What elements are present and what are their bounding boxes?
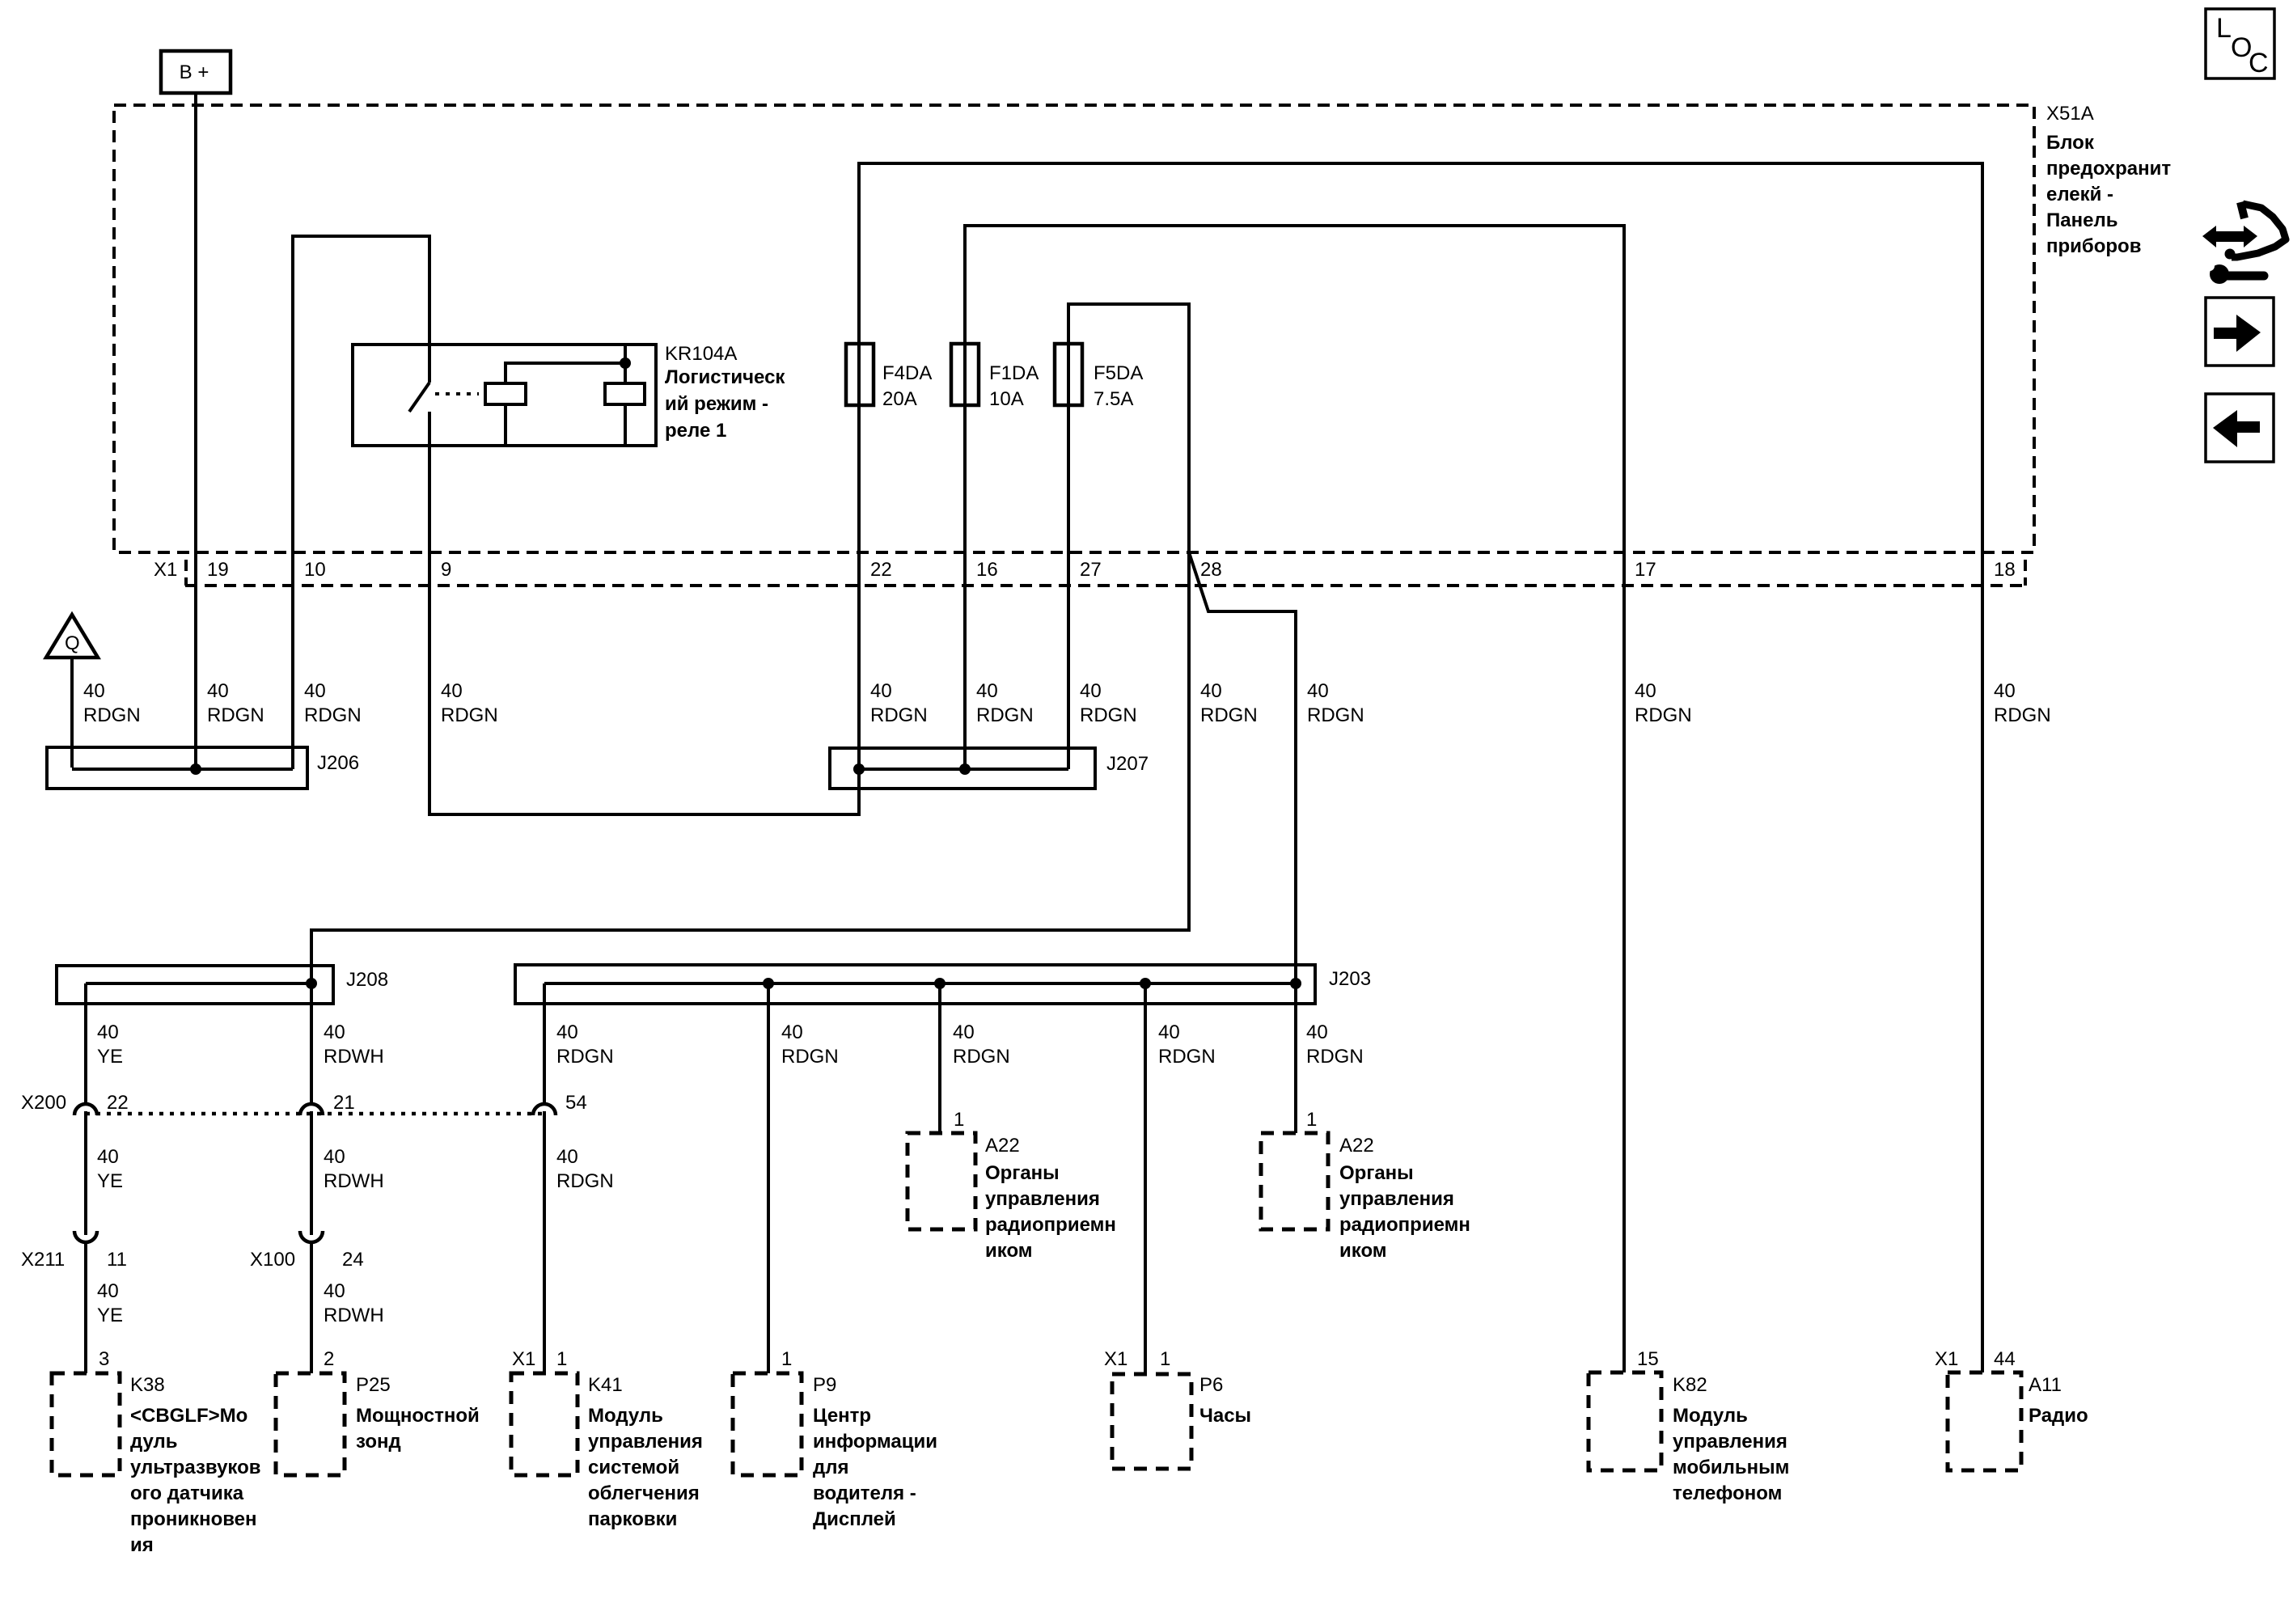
wire J203 to K41 <box>543 983 546 1373</box>
svg-text:RDWH: RDWH <box>324 1170 384 1192</box>
wire label 40 RDGN (A22 left wire) <box>953 1021 1010 1068</box>
svg-text:RDGN: RDGN <box>781 1046 839 1068</box>
svg-text:40: 40 <box>207 680 229 702</box>
svg-text:RDGN: RDGN <box>1994 704 2051 726</box>
svg-text:2: 2 <box>324 1348 334 1370</box>
svg-text:RDGN: RDGN <box>441 704 498 726</box>
svg-text:F1DA: F1DA <box>989 362 1039 384</box>
svg-text:дуль: дуль <box>130 1431 178 1453</box>
svg-text:иком: иком <box>985 1240 1033 1262</box>
svg-text:3: 3 <box>99 1348 109 1370</box>
splice J208 box <box>57 966 388 1004</box>
svg-text:40: 40 <box>953 1021 975 1043</box>
wire label 40 RDGN (K41 wire upper) <box>556 1021 614 1068</box>
svg-text:40: 40 <box>1994 680 2016 702</box>
fuse F4DA <box>846 344 932 410</box>
ground symbol Q triangle <box>46 615 98 658</box>
svg-text:RDGN: RDGN <box>870 704 928 726</box>
wire label 40 RDGN (pin 19 wire) <box>207 680 264 726</box>
svg-text:телефоном: телефоном <box>1673 1482 1782 1504</box>
wire label 40 RDGN (pin 18 wire) <box>1994 680 2051 726</box>
relay KR104A labels <box>665 343 785 442</box>
module K38 dashed box <box>52 1348 261 1556</box>
svg-text:J207: J207 <box>1106 753 1149 775</box>
wire pin 28 jog branch down to J203 and A22 <box>1189 552 1296 1133</box>
svg-text:X100: X100 <box>250 1249 295 1271</box>
wire B+ pin 19 to J206 <box>194 93 197 768</box>
wire label 40 RDWH (P25 wire lower) <box>324 1280 384 1326</box>
svg-text:ультразвуков: ультразвуков <box>130 1457 261 1478</box>
svg-text:J206: J206 <box>317 752 359 774</box>
module K82 dashed box <box>1589 1348 1789 1504</box>
svg-text:зонд: зонд <box>356 1431 401 1453</box>
svg-text:ия: ия <box>130 1534 154 1556</box>
svg-text:40: 40 <box>1307 680 1329 702</box>
connector X200 dotted line <box>86 1112 544 1116</box>
svg-text:X1: X1 <box>1104 1348 1127 1370</box>
svg-text:A22: A22 <box>985 1135 1020 1157</box>
svg-text:F4DA: F4DA <box>882 362 932 384</box>
svg-text:RDGN: RDGN <box>1635 704 1692 726</box>
wire label 40 RDWH (P25 wire middle) <box>324 1146 384 1192</box>
module P9 dashed box <box>733 1348 937 1530</box>
wire J207 through fuse F1DA pin 16, top run, pin 17 down to K82 <box>965 226 1624 1372</box>
svg-text:P9: P9 <box>813 1374 836 1396</box>
svg-text:ого датчика: ого датчика <box>130 1482 244 1504</box>
svg-text:40: 40 <box>976 680 998 702</box>
svg-text:Модуль: Модуль <box>1673 1405 1748 1427</box>
svg-text:P6: P6 <box>1199 1374 1223 1396</box>
svg-text:40: 40 <box>1080 680 1102 702</box>
svg-text:реле 1: реле 1 <box>665 420 726 442</box>
wire label 40 RDGN (A22 right wire) <box>1306 1021 1364 1068</box>
wire label 40 RDGN (P6 wire) <box>1158 1021 1216 1068</box>
svg-text:40: 40 <box>870 680 892 702</box>
wire label 40 RDGN (pin 16 wire) <box>976 680 1034 726</box>
svg-text:RDWH: RDWH <box>324 1305 384 1326</box>
wire label 40 YE (K38 wire middle) <box>97 1146 123 1192</box>
svg-text:54: 54 <box>565 1092 587 1114</box>
wire label 40 RDGN (pin 27 wire) <box>1080 680 1137 726</box>
svg-text:RDGN: RDGN <box>556 1046 614 1068</box>
connector X200 bump on K38 wire <box>74 1104 97 1115</box>
svg-text:X1: X1 <box>512 1348 535 1370</box>
svg-text:10: 10 <box>304 559 326 581</box>
svg-text:20A: 20A <box>882 388 917 410</box>
svg-text:предохранит: предохранит <box>2046 158 2171 180</box>
svg-text:K82: K82 <box>1673 1374 1707 1396</box>
svg-text:40: 40 <box>1306 1021 1328 1043</box>
module A11 dashed box <box>1935 1348 2088 1470</box>
wire label 40 RDGN (P9 wire) <box>781 1021 839 1068</box>
svg-text:40: 40 <box>324 1021 345 1043</box>
car connector-view icon <box>2202 202 2286 284</box>
svg-text:RDGN: RDGN <box>1158 1046 1216 1068</box>
svg-text:10A: 10A <box>989 388 1024 410</box>
svg-text:F5DA: F5DA <box>1094 362 1143 384</box>
svg-text:40: 40 <box>304 680 326 702</box>
wire label 40 RDGN (pin 28 wire) <box>1200 680 1258 726</box>
svg-text:для: для <box>813 1457 848 1478</box>
svg-text:40: 40 <box>781 1021 803 1043</box>
svg-text:11: 11 <box>107 1249 127 1271</box>
wire label 40 RDWH (P25 wire upper) <box>324 1021 384 1068</box>
wire J203 to P9 <box>767 983 770 1373</box>
svg-text:парковки: парковки <box>588 1508 677 1530</box>
svg-text:Блок: Блок <box>2046 132 2095 154</box>
svg-text:Органы: Органы <box>985 1162 1060 1184</box>
svg-text:RDGN: RDGN <box>207 704 264 726</box>
svg-text:YE: YE <box>97 1170 123 1192</box>
svg-text:мобильным: мобильным <box>1673 1457 1789 1478</box>
svg-text:управления: управления <box>985 1188 1100 1210</box>
power feed terminal B+ box <box>161 51 231 93</box>
connector X200 bump on P25 wire <box>300 1104 323 1115</box>
svg-text:X211: X211 <box>21 1249 65 1271</box>
svg-text:40: 40 <box>1635 680 1656 702</box>
svg-text:RDGN: RDGN <box>1306 1046 1364 1068</box>
connector X100 bump <box>300 1231 323 1242</box>
LOC legend box <box>2206 9 2274 78</box>
wire label 40 YE (K38 wire upper) <box>97 1021 123 1068</box>
wire pin 10 from J206 up to relay switch common <box>293 236 429 769</box>
wire label 40 YE (K38 wire lower) <box>97 1280 123 1326</box>
svg-text:K41: K41 <box>588 1374 623 1396</box>
fuse F5DA <box>1055 344 1143 410</box>
left arrow navigation box <box>2206 394 2274 462</box>
wire label 40 RDGN (J203 feed wire) <box>1307 680 1364 726</box>
ground symbol Q wire <box>70 658 74 768</box>
svg-text:Центр: Центр <box>813 1405 871 1427</box>
svg-text:RDGN: RDGN <box>1200 704 1258 726</box>
module A22 left dashed box <box>907 1109 1116 1262</box>
wire label 40 RDGN (pin 10 wire) <box>304 680 362 726</box>
module K41 dashed box <box>511 1348 703 1530</box>
wire relay output pin 9 to J207 feed <box>429 412 859 814</box>
splice J207 box <box>830 748 1149 789</box>
svg-text:водителя -: водителя - <box>813 1482 916 1504</box>
svg-text:40: 40 <box>324 1146 345 1168</box>
svg-text:ий режим -: ий режим - <box>665 393 768 415</box>
svg-text:27: 27 <box>1080 559 1102 581</box>
connector X200 bump on K41 wire <box>533 1104 556 1115</box>
svg-text:приборов: приборов <box>2046 235 2141 257</box>
wire J208 to P25 <box>310 983 313 1373</box>
svg-text:40: 40 <box>97 1280 119 1302</box>
svg-text:Органы: Органы <box>1339 1162 1414 1184</box>
svg-text:18: 18 <box>1994 559 2016 581</box>
connector X1 lower dashed line <box>185 560 2026 586</box>
svg-text:проникновен: проникновен <box>130 1508 257 1530</box>
module A22 right dashed box <box>1261 1109 1470 1262</box>
wire J203 to A22 left <box>938 983 941 1133</box>
svg-text:J208: J208 <box>346 969 388 991</box>
svg-text:16: 16 <box>976 559 998 581</box>
svg-text:Панель: Панель <box>2046 209 2117 231</box>
relay KR104A actuator dotted line <box>435 392 479 395</box>
svg-text:40: 40 <box>556 1146 578 1168</box>
wire label 40 RDGN (pin 22 wire) <box>870 680 928 726</box>
wire J207 through fuse F5DA pin 27, top run, pin 28 down, feed to J208 <box>311 304 1189 983</box>
module P6 dashed box <box>1104 1348 1251 1469</box>
svg-text:радиоприемн: радиоприемн <box>985 1214 1116 1236</box>
svg-text:Модуль: Модуль <box>588 1405 663 1427</box>
svg-text:40: 40 <box>97 1021 119 1043</box>
svg-text:40: 40 <box>1200 680 1222 702</box>
wire J208 to K38 <box>84 983 87 1373</box>
svg-text:22: 22 <box>107 1092 129 1114</box>
svg-text:J203: J203 <box>1329 968 1371 990</box>
relay KR104A switch arm <box>409 383 429 412</box>
svg-text:RDGN: RDGN <box>83 704 141 726</box>
svg-text:X200: X200 <box>21 1092 66 1114</box>
svg-text:1: 1 <box>1306 1109 1317 1131</box>
svg-text:YE: YE <box>97 1046 123 1068</box>
connector X211 bump <box>74 1231 97 1242</box>
relay KR104A coil <box>485 345 645 446</box>
splice J206 box <box>47 747 359 789</box>
svg-text:системой: системой <box>588 1457 679 1478</box>
svg-text:RDGN: RDGN <box>556 1170 614 1192</box>
svg-text:B +: B + <box>180 61 209 83</box>
svg-text:Q: Q <box>65 632 80 654</box>
svg-text:RDGN: RDGN <box>976 704 1034 726</box>
svg-text:елекй -: елекй - <box>2046 184 2113 205</box>
svg-text:44: 44 <box>1994 1348 2016 1370</box>
svg-text:7.5A: 7.5A <box>1094 388 1133 410</box>
wire label 40 RDGN (Q ground wire) <box>83 680 141 726</box>
svg-text:A11: A11 <box>2029 1374 2062 1396</box>
svg-text:радиоприемн: радиоприемн <box>1339 1214 1470 1236</box>
svg-text:RDGN: RDGN <box>304 704 362 726</box>
wire label 40 RDGN (K41 wire lower) <box>556 1146 614 1192</box>
svg-text:управления: управления <box>588 1431 703 1453</box>
svg-text:информации: информации <box>813 1431 937 1453</box>
svg-text:Логистическ: Логистическ <box>665 366 785 388</box>
splice J203 box <box>515 965 1371 1004</box>
svg-text:40: 40 <box>556 1021 578 1043</box>
svg-text:<CBGLF>Мо: <CBGLF>Мо <box>130 1405 247 1427</box>
svg-text:19: 19 <box>207 559 229 581</box>
svg-text:YE: YE <box>97 1305 123 1326</box>
svg-text:40: 40 <box>83 680 105 702</box>
svg-text:24: 24 <box>342 1249 364 1271</box>
svg-text:A22: A22 <box>1339 1135 1374 1157</box>
svg-text:40: 40 <box>324 1280 345 1302</box>
svg-text:RDGN: RDGN <box>1080 704 1137 726</box>
fuse F1DA <box>951 344 1039 410</box>
svg-text:21: 21 <box>333 1092 355 1114</box>
svg-text:15: 15 <box>1637 1348 1659 1370</box>
svg-text:40: 40 <box>1158 1021 1180 1043</box>
svg-text:облегчения: облегчения <box>588 1482 700 1504</box>
svg-text:управления: управления <box>1673 1431 1787 1453</box>
svg-text:1: 1 <box>1160 1348 1170 1370</box>
svg-text:L: L <box>2216 13 2232 44</box>
relay KR104A box <box>353 345 656 446</box>
svg-text:RDWH: RDWH <box>324 1046 384 1068</box>
fuse block X51A dashed outline <box>114 105 2034 552</box>
wire J207 through fuse F4DA pin 22, top run, pin 18 down to A11 <box>859 163 1982 1372</box>
svg-text:1: 1 <box>954 1109 964 1131</box>
svg-text:1: 1 <box>556 1348 567 1370</box>
svg-text:40: 40 <box>441 680 463 702</box>
svg-text:28: 28 <box>1200 559 1222 581</box>
svg-text:Радио: Радио <box>2029 1405 2088 1427</box>
wire J203 to P6 <box>1144 983 1147 1374</box>
svg-text:17: 17 <box>1635 559 1656 581</box>
svg-text:KR104A: KR104A <box>665 343 737 365</box>
svg-text:1: 1 <box>781 1348 792 1370</box>
svg-text:управления: управления <box>1339 1188 1454 1210</box>
svg-text:RDGN: RDGN <box>1307 704 1364 726</box>
svg-text:40: 40 <box>97 1146 119 1168</box>
svg-text:RDGN: RDGN <box>953 1046 1010 1068</box>
svg-text:C: C <box>2249 48 2269 78</box>
fuse block X51A label <box>2046 103 2171 257</box>
svg-text:K38: K38 <box>130 1374 165 1396</box>
svg-text:Мощностной: Мощностной <box>356 1405 480 1427</box>
svg-text:9: 9 <box>441 559 451 581</box>
right arrow navigation box <box>2206 298 2274 366</box>
svg-text:P25: P25 <box>356 1374 391 1396</box>
svg-text:иком: иком <box>1339 1240 1387 1262</box>
wire label 40 RDGN (pin 9 wire) <box>441 680 498 726</box>
svg-text:Часы: Часы <box>1199 1405 1251 1427</box>
svg-text:X1: X1 <box>1935 1348 1958 1370</box>
svg-text:Дисплей: Дисплей <box>813 1508 896 1530</box>
wire label 40 RDGN (pin 17 wire) <box>1635 680 1692 726</box>
svg-text:X1: X1 <box>154 559 177 581</box>
module P25 dashed box <box>276 1348 480 1475</box>
svg-text:22: 22 <box>870 559 892 581</box>
svg-text:X51A: X51A <box>2046 103 2094 125</box>
